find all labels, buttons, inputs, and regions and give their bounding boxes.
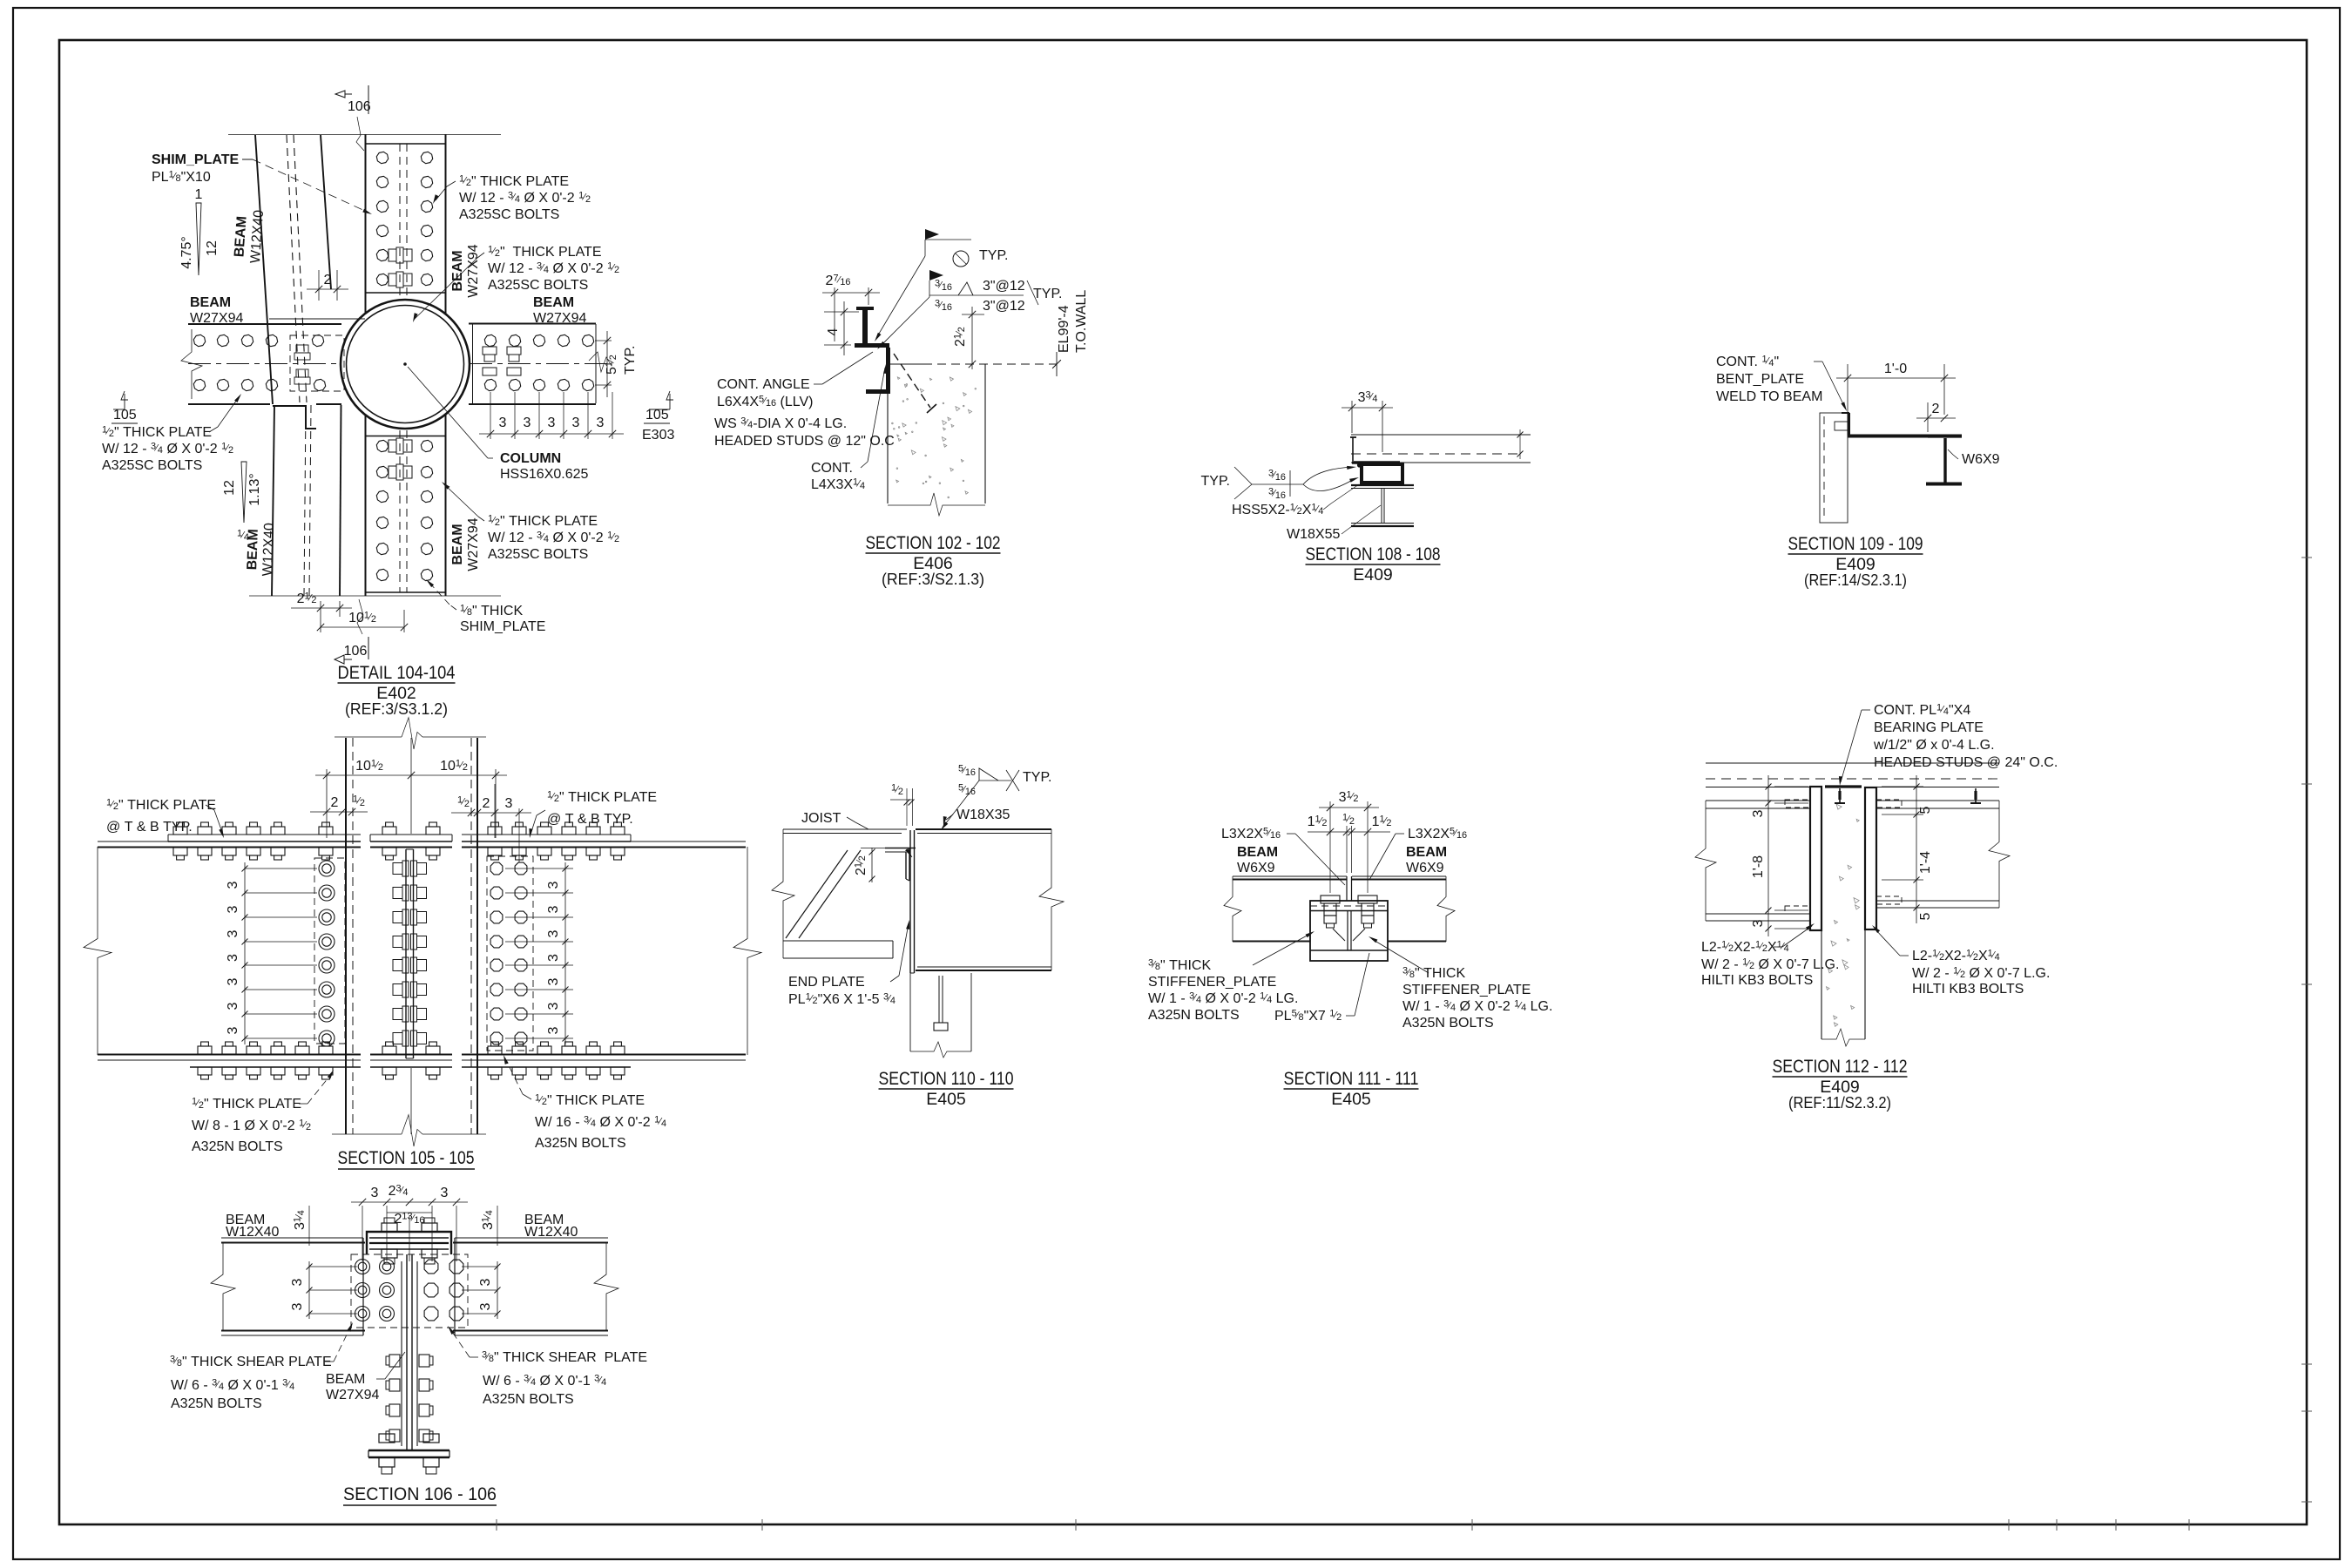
svg-text:1⁄2 " THICK PLATE: 1⁄2 " THICK PLATE (106, 798, 216, 814)
right beam W27X94 flange lines (469, 324, 596, 405)
title SECTION 106-106 (343, 1484, 497, 1505)
svg-text:3: 3 (546, 1002, 561, 1010)
beams W6X9 top flange lines (1233, 876, 1446, 880)
svg-text:3: 3 (1751, 919, 1766, 927)
svg-text:EL99'-4: EL99'-4 (1057, 305, 1071, 353)
label 1/2 thick plate at T+B right (529, 790, 657, 839)
beam W12X40 left (221, 1238, 365, 1335)
left bottom plate bolts (198, 1042, 333, 1079)
column verticals above and below splice (346, 738, 477, 1134)
concrete wall (1821, 787, 1865, 1039)
beam right break (1039, 829, 1064, 970)
beam end breaks (1224, 876, 1241, 942)
centre bottom plate (370, 1055, 452, 1068)
svg-text:W/ 1 - 3⁄4 Ø X 0'-2 1⁄4 LG.: W/ 1 - 3⁄4 Ø X 0'-2 1⁄4 LG. (1402, 999, 1552, 1015)
right bottom plate bolts (488, 1042, 625, 1079)
bent plate thick L (1842, 413, 1962, 436)
svg-text:END PLATE: END PLATE (788, 975, 865, 990)
beam W12X40 right (453, 1238, 608, 1335)
svg-text:W/ 16 - 3⁄4 Ø X 0'-2 1⁄4: W/ 16 - 3⁄4 Ø X 0'-2 1⁄4 (535, 1115, 666, 1131)
svg-text:SECTION 110 - 110: SECTION 110 - 110 (879, 1069, 1014, 1089)
svg-text:A325N BOLTS: A325N BOLTS (171, 1396, 262, 1411)
svg-text:TYP.: TYP. (1033, 287, 1063, 301)
svg-text:HILTI KB3 BOLTS: HILTI KB3 BOLTS (1701, 973, 1813, 988)
section marker 106 bottom (335, 599, 368, 664)
EL99-4 T.O.WALL level marker (923, 290, 1089, 376)
svg-text:3: 3 (226, 954, 240, 962)
svg-text:BEAM: BEAM (450, 524, 465, 564)
svg-text:L2-1⁄2 X2-1⁄2 X1⁄4: L2-1⁄2 X2-1⁄2 X1⁄4 (1912, 949, 2000, 964)
column below (910, 973, 971, 1051)
svg-text:BEAM: BEAM (533, 295, 574, 310)
label BEAM W27X94 left (190, 295, 243, 326)
svg-text:1⁄2 " THICK PLATE: 1⁄2 " THICK PLATE (488, 245, 602, 260)
svg-text:3: 3 (548, 416, 556, 430)
svg-text:W12X40: W12X40 (226, 1225, 279, 1240)
left bolt spacing dims 3x7 (226, 862, 317, 1044)
title SECTION 105-105 (338, 1148, 476, 1169)
svg-text:BEAM: BEAM (1237, 845, 1278, 860)
dimension 5-1/2 TYP right (595, 331, 638, 397)
svg-text:BEARING PLATE: BEARING PLATE (1874, 720, 1984, 735)
svg-text:1⁄2 " THICK PLATE: 1⁄2 " THICK PLATE (488, 514, 598, 530)
centre bottom plate bolts (382, 1042, 440, 1079)
svg-text:2: 2 (324, 273, 332, 287)
svg-text:3: 3 (499, 416, 507, 430)
svg-text:(REF:11/S2.3.2): (REF:11/S2.3.2) (1788, 1093, 1891, 1112)
concrete wall stipple hatch (892, 377, 977, 498)
svg-text:106: 106 (348, 99, 371, 114)
label 1/2 thick plate w/16 bolts bottom right (504, 1055, 666, 1151)
svg-text:BENT_PLATE: BENT_PLATE (1716, 372, 1804, 387)
left beam break mark (181, 329, 202, 399)
section marker 105-E303 right (642, 391, 674, 443)
label BEAM W27X94 vertical bottom (rotated) (450, 517, 481, 571)
svg-text:BEAM: BEAM (190, 295, 231, 310)
bottom flange of W27X94 (368, 1450, 449, 1457)
slope symbol 1.13deg (222, 462, 262, 543)
right beam break (1989, 801, 2010, 908)
dimension 1'-0 top (1836, 362, 1956, 436)
svg-text:BEAM: BEAM (450, 250, 465, 291)
svg-text:WELD TO BEAM: WELD TO BEAM (1716, 389, 1822, 404)
left beam end break (84, 847, 112, 1055)
svg-text:3: 3 (371, 1186, 379, 1200)
svg-text:BEAM: BEAM (232, 216, 249, 258)
label 3/8 thick shear plate right (448, 1326, 647, 1407)
svg-text:PL1⁄2 "X6 X 1'-5 3⁄4: PL1⁄2 "X6 X 1'-5 3⁄4 (788, 992, 896, 1008)
right angle L2-1/2 (1865, 787, 1876, 929)
svg-text:STIFFENER_PLATE: STIFFENER_PLATE (1148, 975, 1276, 990)
bearing plate on wall top (1825, 785, 1862, 787)
left beam break (211, 1242, 235, 1331)
label L3X2X5/16 right (1369, 827, 1467, 881)
anchor bolts dashed right (1876, 800, 1902, 904)
beam bottom flanges with jog (1233, 901, 1446, 942)
splice block outline (1310, 901, 1388, 961)
svg-text:HSS5X2-1⁄2 X1⁄4: HSS5X2-1⁄2 X1⁄4 (1232, 503, 1323, 518)
svg-text:3: 3 (226, 1002, 240, 1010)
bottom-left beam W12X40 (1.13deg) lines (272, 405, 341, 596)
centre top plate bolts (382, 822, 440, 860)
svg-text:12: 12 (205, 240, 220, 256)
svg-text:1⁄2 " THICK PLATE: 1⁄2 " THICK PLATE (547, 790, 657, 806)
top plate bolt side symbols (389, 247, 412, 287)
svg-text:BEAM: BEAM (1406, 845, 1447, 860)
svg-text:3: 3 (441, 1186, 449, 1200)
cap plate thick with bent tabs (367, 1232, 451, 1254)
svg-text:JOIST: JOIST (801, 811, 841, 826)
left beam centreline dashed (188, 363, 341, 365)
top splice plate bottom edge (366, 292, 446, 294)
vertical beam hidden web dashed lines (400, 144, 407, 592)
svg-text:4.75°: 4.75° (179, 236, 194, 269)
dimension 2-1/2 left of angle (854, 843, 886, 882)
svg-text:3: 3 (505, 796, 513, 811)
headed studs on deck (1835, 788, 1981, 803)
svg-text:W/ 12 - 3⁄4 Ø X 0'-2 1⁄2: W/ 12 - 3⁄4 Ø X 0'-2 1⁄2 (102, 442, 233, 457)
web bolts 4 rows (386, 1355, 433, 1442)
svg-text:105: 105 (113, 408, 137, 422)
headed stud dashed into wall (894, 354, 936, 413)
dims left 3 / 1-8 / 3 (1751, 775, 1816, 936)
svg-text:W/ 12 - 3⁄4 Ø X 0'-2 1⁄2: W/ 12 - 3⁄4 Ø X 0'-2 1⁄2 (488, 261, 619, 277)
label 1/2 thick plate lower right (442, 482, 619, 562)
label COLUMN HSS16X0.625 (408, 367, 589, 482)
svg-text:1.13°: 1.13° (247, 473, 262, 506)
svg-text:3: 3 (290, 1302, 305, 1310)
svg-text:W/ 6 - 3⁄4 Ø X 0'-1 3⁄4: W/ 6 - 3⁄4 Ø X 0'-1 3⁄4 (483, 1374, 606, 1389)
left top plate bolts (173, 822, 333, 860)
weld symbol 5/16 top right (941, 764, 1052, 831)
svg-text:A325N BOLTS: A325N BOLTS (1402, 1016, 1494, 1031)
svg-text:T.O.WALL: T.O.WALL (1074, 290, 1089, 353)
right top plate bolts (488, 822, 625, 860)
svg-text:2: 2 (1932, 402, 1940, 416)
column bottom break (910, 1042, 971, 1058)
svg-text:3: 3 (226, 905, 240, 913)
left beam bolts (193, 335, 325, 390)
shear plate dashed rect (351, 1254, 468, 1328)
label left angle HILTI bolts (1701, 923, 1839, 988)
svg-text:SECTION 111 - 111: SECTION 111 - 111 (1284, 1069, 1419, 1089)
svg-text:3⁄8 " THICK SHEAR PLATE: 3⁄8 " THICK SHEAR PLATE (482, 1350, 647, 1366)
weld symbol TYP 3/16 left (1201, 466, 1360, 501)
border fold tick marks bottom (496, 1519, 497, 1531)
bottom flange bolts (379, 1434, 439, 1474)
vertical beam W27X94 flange lines (plan) (366, 134, 446, 596)
bottom splice plate top edge (366, 436, 446, 437)
dimension 2 near plate top-left (307, 270, 348, 301)
weld symbol all-around TYP upper (875, 229, 1009, 341)
top dims 3 2-3/4 3 and 2-13/16 (351, 1184, 468, 1262)
centre top plate (370, 835, 452, 848)
svg-text:WS 3⁄4 -DIA X 0'-4 LG.: WS 3⁄4 -DIA X 0'-4 LG. (714, 416, 847, 432)
bottom cut line with break (332, 1133, 402, 1135)
section marker 105 left (112, 391, 138, 423)
right bottom plate (462, 1060, 631, 1067)
svg-text:2: 2 (483, 796, 490, 811)
end plate at joist/beam (910, 830, 915, 973)
left angle L2-1/2 (1810, 787, 1821, 930)
svg-text:3: 3 (226, 977, 240, 985)
right bolt spacing dims 3x7 (505, 862, 573, 1044)
beam W18X35 outline (916, 829, 1051, 970)
hidden end plate dashed rect left (314, 858, 345, 1044)
svg-text:SECTION 106 - 106: SECTION 106 - 106 (343, 1484, 497, 1504)
centre splice bolts (8 rows) (393, 861, 427, 1046)
svg-text:2: 2 (331, 795, 339, 810)
svg-text:TYP.: TYP. (1201, 474, 1231, 489)
label stiffener plate right (1369, 936, 1552, 1031)
svg-text:W/ 2 - 1⁄2 Ø X 0'-7 L.G.: W/ 2 - 1⁄2 Ø X 0'-7 L.G. (1912, 966, 2050, 982)
right top plate (462, 835, 631, 841)
label CONT 1/4 BENT_PLATE WELD TO BEAM (1716, 355, 1847, 412)
right beam break zigzag (589, 352, 612, 372)
svg-text:1⁄2 " THICK PLATE: 1⁄2 " THICK PLATE (535, 1093, 645, 1109)
label CONT. ANGLE L6X4X5/16 (LLV) + studs (714, 352, 895, 449)
svg-text:3: 3 (290, 1278, 305, 1286)
svg-text:3: 3 (226, 929, 240, 937)
cap plate bolts (382, 1218, 437, 1264)
svg-text:3: 3 (478, 1302, 493, 1310)
dimension 2 (1916, 402, 1956, 432)
svg-text:@ T & B TYP.: @ T & B TYP. (547, 812, 633, 827)
top break line of detail (228, 134, 501, 136)
svg-text:1: 1 (195, 187, 203, 202)
right bolt field 2x8 (490, 862, 527, 1044)
beam W18X55 (1351, 485, 1414, 526)
left beam W27X94 elevation (98, 841, 361, 1060)
svg-text:3"@12: 3"@12 (983, 279, 1025, 294)
svg-text:SECTION 102 - 102: SECTION 102 - 102 (866, 533, 1001, 553)
hidden plate dashed rectangle left of column (290, 335, 344, 391)
svg-text:@ T & B TYP.: @ T & B TYP. (106, 820, 193, 835)
svg-text:W27X94: W27X94 (326, 1388, 379, 1402)
label L3X2X5/16 left (1221, 827, 1345, 886)
label BEAM W27X94 right (533, 295, 586, 326)
hidden bolt side symbols at left plate (294, 345, 310, 384)
dims 1-1/2 1/2 1-1/2 (1308, 813, 1392, 874)
concrete wall outline (888, 364, 985, 516)
weld arrows at angle (905, 848, 912, 857)
bent plate (dark) with top tee (855, 307, 889, 348)
svg-text:3: 3 (226, 1026, 240, 1034)
svg-text:TYP.: TYP. (1023, 770, 1052, 785)
label SHIM_PLATE PL1/8x10 (152, 152, 372, 214)
svg-text:1⁄2 " THICK PLATE: 1⁄2 " THICK PLATE (102, 425, 212, 441)
bottom break line of detail (249, 595, 501, 597)
svg-text:1'-8: 1'-8 (1751, 855, 1766, 878)
weld dot at tube corner (1357, 463, 1362, 467)
svg-text:W6X9: W6X9 (1962, 452, 2000, 467)
dims right 5 / 1-4 / 5 (1882, 775, 1933, 923)
chamfer marks inside block (1333, 923, 1365, 941)
svg-text:L6X4X5⁄16 (LLV): L6X4X5⁄16 (LLV) (717, 395, 813, 410)
right beam W27X94 elevation (462, 841, 746, 1060)
label 1/2 thick plate at T+B left (106, 798, 224, 839)
right beam flanges (1876, 801, 1999, 908)
svg-text:A325N BOLTS: A325N BOLTS (192, 1139, 283, 1154)
deck slab band (1351, 429, 1531, 463)
dimension 4 left (824, 301, 859, 355)
svg-text:DETAIL 104-104: DETAIL 104-104 (338, 663, 456, 683)
label PL5/8x7-1/2 (1274, 953, 1369, 1024)
svg-text:TYP.: TYP. (979, 248, 1009, 263)
bolt row extension lines and 3-3 dims left (290, 1261, 357, 1319)
dims 2 1/2 left (310, 794, 368, 816)
svg-text:4: 4 (826, 328, 841, 335)
hanging beam W27X94 web and plates (402, 1254, 417, 1450)
svg-text:106: 106 (344, 644, 368, 659)
centre splice plate and column web (406, 849, 414, 1058)
svg-text:W/ 8 - 1 Ø X 0'-2 1⁄2: W/ 8 - 1 Ø X 0'-2 1⁄2 (192, 1119, 311, 1134)
label BEAM W12X40 right (524, 1213, 578, 1240)
dimension 3-3/4 (1342, 390, 1393, 453)
bottom plate bolts (12 - A325SC) (376, 440, 432, 580)
svg-text:3: 3 (546, 1026, 561, 1034)
svg-text:(REF:3/S3.1.2): (REF:3/S3.1.2) (345, 700, 448, 718)
dim 3-1/2 top (1319, 790, 1379, 894)
left beam break (1695, 801, 1716, 921)
svg-text:E405: E405 (926, 1090, 966, 1109)
svg-text:SHIM_PLATE: SHIM_PLATE (460, 619, 545, 634)
label 1/8 thick shim plate (426, 579, 545, 634)
svg-text:W12X40: W12X40 (524, 1225, 578, 1240)
HSS5X2-1/2X1/4 tube (thick) (1362, 464, 1402, 483)
shim plate top edge line (269, 318, 365, 320)
svg-text:A325SC BOLTS: A325SC BOLTS (488, 547, 588, 562)
svg-text:CONT.: CONT. (811, 461, 853, 476)
dims 3-1/4 left and right rotated (293, 1206, 498, 1246)
right beam end break (733, 847, 761, 1055)
beam W12X40 label top (rotated) (232, 209, 267, 264)
left end-plate bolt column (8 - 1in bolts) (319, 861, 335, 1046)
dimension 1/2 top (890, 783, 915, 827)
svg-text:W27X94: W27X94 (533, 311, 586, 326)
svg-text:(REF:3/S2.1.3): (REF:3/S2.1.3) (882, 570, 984, 588)
svg-text:W/ 2 - 1⁄2 Ø X 0'-7 L.G.: W/ 2 - 1⁄2 Ø X 0'-7 L.G. (1701, 957, 1839, 973)
anchor bolts dashed left (1785, 800, 1810, 914)
top cut line with break (335, 736, 402, 738)
beam W6X9 (thick) (1926, 437, 1962, 484)
svg-text:W27X94: W27X94 (466, 517, 481, 571)
border fold tick marks right (2301, 557, 2312, 558)
dims 1/2 2 3 right (451, 784, 531, 862)
dimension 3x5 bottom of right beam (479, 392, 624, 439)
wall bottom break (1821, 1029, 1865, 1046)
svg-text:A325N BOLTS: A325N BOLTS (1148, 1008, 1240, 1023)
svg-text:BEAM: BEAM (326, 1372, 365, 1387)
svg-text:1'-4: 1'-4 (1918, 851, 1933, 874)
label BEAM W27X94 centre (326, 1352, 405, 1402)
left top plate 1/2 thick (168, 835, 361, 841)
bottom splice plate edge (366, 591, 446, 593)
label W18X55 (1287, 505, 1381, 542)
svg-text:W12X40: W12X40 (260, 523, 277, 577)
label 1/2 thick plate mid right (413, 245, 619, 323)
label stiffener plate left (1148, 931, 1315, 1023)
svg-text:W27X94: W27X94 (466, 244, 481, 297)
label CONT. L4X3X1/4 (811, 364, 887, 492)
label 1/2 thick plate upper right (433, 174, 591, 223)
svg-text:1⁄2 " THICK PLATE: 1⁄2 " THICK PLATE (459, 174, 569, 190)
label CONT PL1/4x4 bearing plate (1839, 703, 2058, 787)
wall stipple (1827, 804, 1860, 1026)
svg-text:3: 3 (572, 416, 580, 430)
left bottom plate 1/2 thick (190, 1060, 361, 1067)
svg-text:CONT. ANGLE: CONT. ANGLE (717, 377, 810, 392)
angle L4X3X1/2 ctr'd (885, 848, 916, 881)
bent plate 1/4 thick (1350, 437, 1400, 463)
bolts with heads (2) (1321, 896, 1377, 928)
label 1/2 thick plate w/8 bolts bottom left (192, 1070, 334, 1154)
svg-text:3: 3 (524, 416, 531, 430)
svg-text:3: 3 (226, 881, 240, 889)
deck band (1706, 763, 1999, 787)
svg-text:A325SC BOLTS: A325SC BOLTS (488, 278, 588, 293)
svg-text:A325SC BOLTS: A325SC BOLTS (102, 458, 202, 473)
label BEAM W12X40 left (226, 1213, 279, 1240)
joist left break (772, 829, 794, 958)
svg-text:W6X9: W6X9 (1406, 861, 1444, 875)
cont angle L4X3X1/4 (866, 348, 890, 394)
svg-text:A325N BOLTS: A325N BOLTS (535, 1136, 626, 1151)
dimension 2-7/16 top (822, 274, 880, 342)
svg-text:SECTION 108 - 108: SECTION 108 - 108 (1306, 544, 1441, 564)
svg-text:W/ 12 - 3⁄4 Ø X 0'-2 1⁄2: W/ 12 - 3⁄4 Ø X 0'-2 1⁄2 (488, 531, 619, 546)
joist bottom chord (783, 906, 893, 958)
svg-text:CONT. PL1⁄4 "X4: CONT. PL1⁄4 "X4 (1874, 703, 1970, 719)
anchor rod and nut (934, 976, 948, 1031)
weld symbol 3/16 with leader (877, 270, 1063, 349)
svg-text:E405: E405 (1331, 1090, 1371, 1109)
svg-text:3⁄8 " THICK SHEAR PLATE: 3⁄8 " THICK SHEAR PLATE (170, 1355, 332, 1370)
svg-text:3: 3 (478, 1278, 493, 1286)
svg-text:3: 3 (597, 416, 605, 430)
label BEAM W6X9 right (1406, 845, 1447, 875)
section marker 106 top (335, 85, 371, 151)
svg-text:3: 3 (546, 881, 561, 889)
top splice plate edge (366, 143, 446, 145)
svg-text:A325N BOLTS: A325N BOLTS (483, 1392, 574, 1407)
right beam bolts (5x2) (484, 335, 593, 390)
beam W12X40 top-left (sloped) flange lines (255, 135, 331, 404)
label right angle HILTI bolts (1872, 925, 2050, 997)
svg-text:3"@12: 3"@12 (983, 299, 1025, 314)
svg-text:SECTION 105 - 105: SECTION 105 - 105 (338, 1148, 475, 1168)
svg-text:W/ 6 - 3⁄4 Ø X 0'-1 3⁄4: W/ 6 - 3⁄4 Ø X 0'-1 3⁄4 (171, 1378, 294, 1394)
slope symbol 1:12 (4.75deg) (179, 187, 220, 275)
svg-text:(REF:14/S2.3.1): (REF:14/S2.3.1) (1804, 571, 1907, 589)
shear plate bolts right (plain) (424, 1260, 463, 1321)
joist top chord (783, 829, 907, 834)
shear plate bolts left (circled) (355, 1260, 395, 1321)
label END PLATE PL1/2x6x1-5-3/4 (788, 920, 909, 1007)
svg-text:E303: E303 (642, 428, 674, 443)
svg-text:W18X55: W18X55 (1287, 527, 1340, 542)
right beam centreline dashed (470, 363, 610, 365)
svg-text:HEADED STUDS @ 12" O.C: HEADED STUDS @ 12" O.C (714, 434, 895, 449)
label 3/8 thick shear plate left (170, 1322, 353, 1411)
svg-text:SHIM_PLATE: SHIM_PLATE (152, 152, 239, 167)
svg-text:STIFFENER_PLATE: STIFFENER_PLATE (1402, 983, 1531, 997)
svg-text:W18X35: W18X35 (956, 808, 1010, 822)
svg-text:E409: E409 (1353, 565, 1393, 585)
svg-text:12: 12 (222, 480, 237, 496)
svg-text:HILTI KB3 BOLTS: HILTI KB3 BOLTS (1912, 982, 2024, 997)
label JOIST (801, 811, 868, 829)
